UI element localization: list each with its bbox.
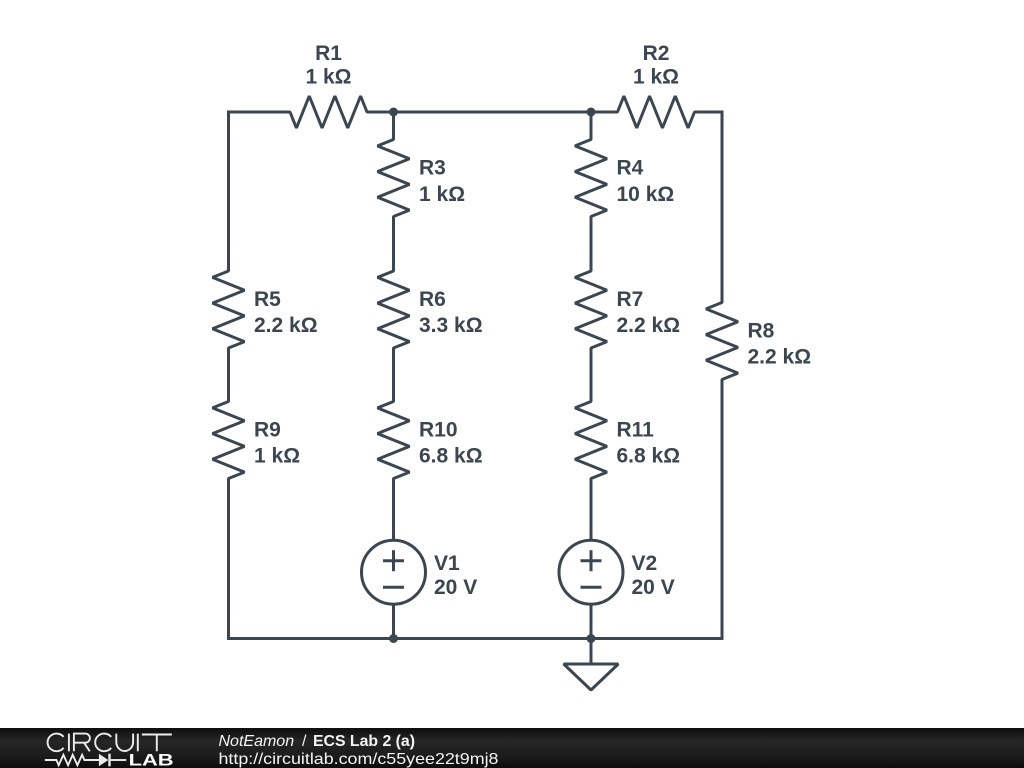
svg-text:R2: R2 <box>643 42 670 65</box>
label V2 <box>632 552 675 599</box>
label R9 <box>254 419 300 468</box>
svg-text:V2: V2 <box>632 552 658 575</box>
svg-text:ECS Lab 2 (a): ECS Lab 2 (a) <box>313 733 415 750</box>
svg-text:10 kΩ: 10 kΩ <box>617 183 675 206</box>
svg-text:R1: R1 <box>315 42 342 65</box>
svg-text:R8: R8 <box>748 320 775 343</box>
svg-text:2.2 kΩ: 2.2 kΩ <box>254 314 318 337</box>
svg-text:3.3 kΩ: 3.3 kΩ <box>419 314 483 337</box>
svg-text:R3: R3 <box>419 157 446 180</box>
node A (top left junction) <box>389 108 398 117</box>
label R5 <box>254 288 318 337</box>
wire mid-right V2 stub <box>590 505 593 540</box>
wire left rail lower <box>227 505 230 639</box>
svg-text:R10: R10 <box>419 419 458 442</box>
label R11 <box>617 419 681 468</box>
label R10 <box>419 419 483 468</box>
voltage source V2 <box>559 540 623 639</box>
svg-text:20 V: 20 V <box>434 576 477 599</box>
svg-text:NotEamon: NotEamon <box>219 733 295 750</box>
label V1 <box>434 552 477 599</box>
wire right rail upper <box>721 112 724 276</box>
wire mid-left V1 stub <box>392 505 395 540</box>
label R8 <box>748 320 812 369</box>
svg-text:6.8 kΩ: 6.8 kΩ <box>419 444 483 467</box>
wire bottom rail <box>227 637 724 640</box>
resistor R11 <box>575 375 607 505</box>
resistor R5 <box>213 245 245 376</box>
svg-text:V1: V1 <box>434 552 460 575</box>
ground <box>564 639 619 691</box>
label R1 <box>305 42 351 89</box>
svg-text:2.2 kΩ: 2.2 kΩ <box>617 314 681 337</box>
svg-text:20 V: 20 V <box>632 576 675 599</box>
resistor R9 <box>213 375 245 505</box>
wire top middle (node A to node B) <box>394 111 592 114</box>
label R7 <box>617 288 681 337</box>
resistor R4 <box>575 112 607 244</box>
svg-text:R4: R4 <box>617 157 644 180</box>
svg-text:http://circuitlab.com/c55yee22: http://circuitlab.com/c55yee22t9mj8 <box>219 751 499 768</box>
svg-text:R9: R9 <box>254 419 281 442</box>
resistor R3 <box>378 112 410 244</box>
label R6 <box>419 288 483 337</box>
wire right rail lower <box>721 406 724 639</box>
node B (top right junction) <box>587 108 596 117</box>
svg-text:/: / <box>302 733 307 750</box>
voltage source V1 <box>362 540 426 639</box>
logo resistor-diode squiggle <box>45 755 127 765</box>
wire left rail upper <box>227 112 230 245</box>
svg-text:R5: R5 <box>254 288 281 311</box>
resistor R10 <box>378 375 410 505</box>
resistor R8 <box>706 276 738 406</box>
svg-text:1 kΩ: 1 kΩ <box>633 66 679 89</box>
svg-text:R7: R7 <box>617 288 644 311</box>
svg-text:R6: R6 <box>419 288 446 311</box>
logo diode <box>99 754 108 767</box>
footer bar <box>0 728 1024 768</box>
label R4 <box>617 157 675 206</box>
label R3 <box>419 157 465 206</box>
svg-text:1 kΩ: 1 kΩ <box>254 444 300 467</box>
resistor R1 <box>264 96 394 128</box>
svg-text:R11: R11 <box>617 419 655 442</box>
wire top-left segment <box>227 111 264 114</box>
svg-text:1 kΩ: 1 kΩ <box>419 183 465 206</box>
footer title text <box>219 733 499 768</box>
svg-text:2.2 kΩ: 2.2 kΩ <box>748 345 812 368</box>
svg-text:6.8 kΩ: 6.8 kΩ <box>617 444 681 467</box>
resistor R2 <box>591 96 724 128</box>
node C (bottom left junction) <box>389 634 398 643</box>
node D (bottom right junction) <box>587 634 596 643</box>
svg-text:LAB: LAB <box>129 751 174 768</box>
label R2 <box>633 42 679 89</box>
resistor R6 <box>378 244 410 375</box>
resistor R7 <box>575 244 607 375</box>
CircuitLab logo wordmark CIRCUIT <box>48 734 172 752</box>
svg-text:1 kΩ: 1 kΩ <box>305 66 351 89</box>
